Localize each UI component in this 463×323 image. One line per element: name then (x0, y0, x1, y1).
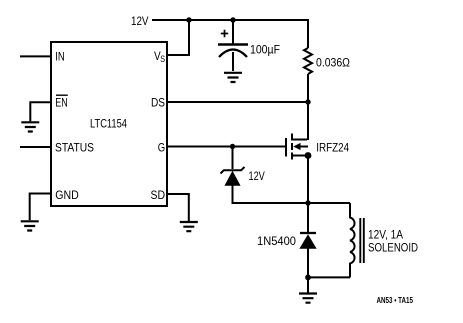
wire zener anode down and across to source (233, 186, 351, 204)
svg-text:SD: SD (151, 188, 166, 202)
svg-text:12V, 1A: 12V, 1A (368, 227, 403, 241)
wire EN pin to ground (30, 102, 51, 121)
wire capacitor C1 top (232, 20, 234, 44)
wire MOSFET source down (307, 156, 309, 204)
svg-text:0.036Ω: 0.036Ω (316, 55, 350, 69)
junction dot G / zener (230, 144, 235, 149)
wire C1 bottom to ground (232, 52, 234, 71)
svg-text:100µF: 100µF (250, 43, 280, 57)
svg-text:AN53 • TA15: AN53 • TA15 (377, 296, 414, 305)
junction dot VS / rail (186, 17, 191, 22)
ground capacitor C1 (224, 73, 242, 82)
svg-text:GND: GND (55, 188, 79, 202)
resistor R1 0.036ohm zigzag (304, 48, 312, 74)
Q1 body arrow head (293, 143, 300, 150)
svg-text:STATUS: STATUS (55, 140, 94, 154)
svg-text:IN: IN (55, 49, 65, 63)
wire G line (167, 146, 286, 148)
wire zener stem top (232, 147, 234, 170)
wire diode D2 bottom stem (307, 249, 309, 278)
wire drain vertical (307, 102, 309, 140)
wire R1 bottom to DS junction (307, 74, 309, 102)
svg-text:DS: DS (151, 96, 165, 110)
diode D2 1N5400 (299, 233, 316, 249)
svg-text:EN: EN (55, 96, 68, 110)
plus sign C1 polarity (221, 30, 228, 37)
ground main bottom (299, 294, 317, 303)
inductor L1 solenoid coil (350, 203, 355, 277)
wire STATUS stub (20, 146, 51, 148)
wire IN stub (20, 55, 51, 57)
wire VS pin to rail (167, 20, 189, 55)
wire DS line (167, 101, 308, 103)
svg-text:12V: 12V (131, 14, 149, 28)
svg-text:G: G (158, 140, 165, 154)
wire 12V supply rail (152, 20, 308, 48)
ground SD pin (180, 222, 198, 231)
zener diode D1 12V (221, 167, 245, 186)
junction dot D2 bottom / ground (305, 275, 311, 281)
wire bottom junction to ground (307, 277, 309, 292)
junction dot DS / drain (305, 99, 310, 104)
junction dot source / body (305, 152, 312, 159)
svg-text:LTC1154: LTC1154 (90, 117, 127, 131)
EN overline (56, 94, 68, 96)
inductor L1 core bars (360, 218, 364, 263)
junction dot source / D2 / solenoid top (305, 200, 310, 205)
ground EN pin (21, 122, 39, 131)
op-amp U1 LTC1154 body (51, 42, 167, 206)
capacitor C1 100uF plates (218, 45, 248, 58)
junction dot C1 / rail (230, 17, 235, 22)
wire SD pin to ground (167, 194, 189, 221)
wire GND pin to ground (30, 194, 51, 221)
ground GND pin (21, 221, 39, 230)
svg-text:SOLENOID: SOLENOID (368, 241, 418, 255)
wire diode D2 top stem (307, 203, 309, 232)
transistor Q1 IRFZ24 MOSFET (286, 134, 308, 160)
wire solenoid bottom return (308, 276, 350, 278)
svg-text:S: S (160, 54, 165, 65)
svg-text:1N5400: 1N5400 (257, 234, 296, 248)
svg-text:12V: 12V (249, 169, 265, 183)
svg-text:IRFZ24: IRFZ24 (316, 140, 349, 154)
